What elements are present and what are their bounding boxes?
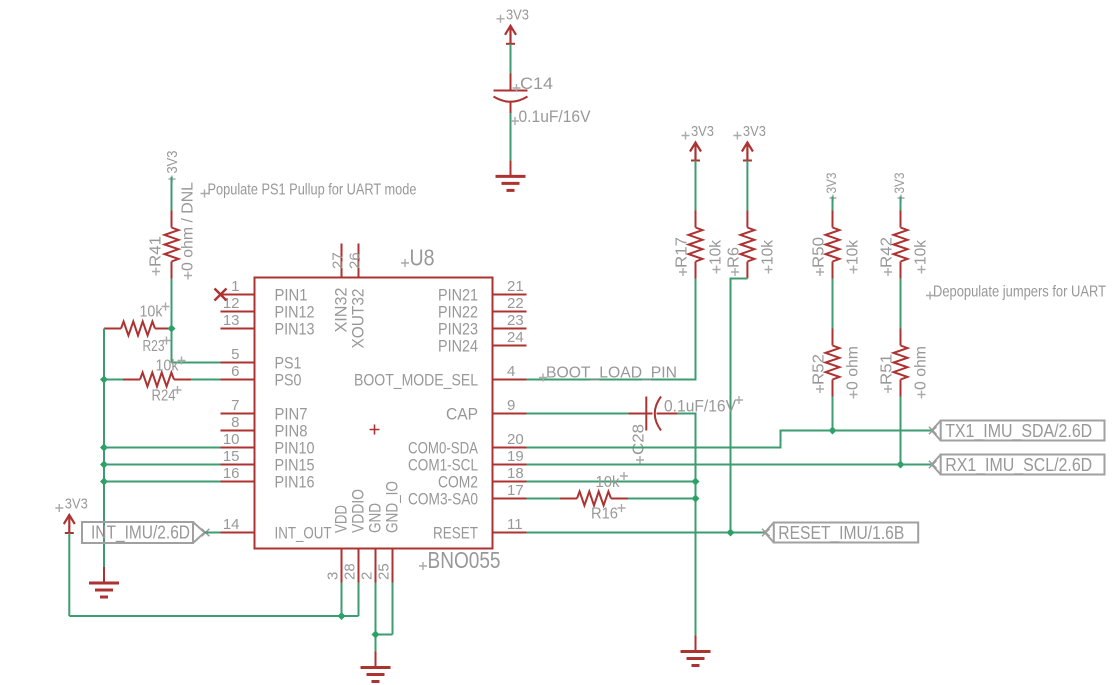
- svg-text:15: 15: [223, 448, 240, 465]
- svg-text:Populate PS1 Pullup for UART m: Populate PS1 Pullup for UART mode: [208, 182, 417, 199]
- svg-text:3V3: 3V3: [65, 496, 88, 513]
- svg-text:13: 13: [223, 312, 240, 329]
- svg-text:R52: R52: [811, 354, 828, 385]
- svg-text:11: 11: [507, 516, 523, 533]
- svg-text:PIN16: PIN16: [275, 473, 315, 492]
- svg-text:10k: 10k: [708, 239, 725, 265]
- svg-text:23: 23: [507, 312, 524, 329]
- svg-text:27: 27: [330, 252, 347, 269]
- svg-text:PS0: PS0: [275, 371, 302, 390]
- svg-text:10k: 10k: [140, 304, 164, 321]
- svg-text:12: 12: [223, 295, 240, 312]
- svg-text:7: 7: [231, 397, 239, 414]
- svg-text:R23: R23: [143, 338, 165, 355]
- svg-text:3V3: 3V3: [743, 123, 766, 140]
- svg-text:26: 26: [347, 252, 364, 269]
- svg-text:0 ohm: 0 ohm: [845, 346, 862, 390]
- svg-text:0 ohm: 0 ohm: [913, 346, 930, 390]
- svg-text:R42: R42: [879, 237, 896, 268]
- svg-text:BOOT_LOAD_PIN: BOOT_LOAD_PIN: [546, 365, 677, 382]
- svg-text:R41: R41: [148, 236, 165, 267]
- svg-text:10k: 10k: [845, 239, 862, 265]
- svg-text:INT_IMU/2.6D: INT_IMU/2.6D: [91, 523, 190, 544]
- svg-text:3V3: 3V3: [691, 123, 714, 140]
- svg-text:5: 5: [231, 346, 239, 363]
- svg-text:10k: 10k: [156, 358, 180, 375]
- svg-text:21: 21: [507, 278, 524, 295]
- svg-text:RESET_IMU/1.6B: RESET_IMU/1.6B: [778, 523, 904, 544]
- svg-text:0 ohm / DNL: 0 ohm / DNL: [180, 182, 197, 271]
- svg-text:COM3-SA0: COM3-SA0: [408, 490, 478, 509]
- svg-text:0.1uF/16V: 0.1uF/16V: [664, 397, 737, 416]
- svg-text:3V3: 3V3: [164, 151, 181, 174]
- svg-text:3V3: 3V3: [891, 172, 907, 193]
- svg-text:0.1uF/16V: 0.1uF/16V: [519, 107, 592, 126]
- svg-text:C14: C14: [520, 74, 553, 93]
- svg-text:3V3: 3V3: [506, 6, 529, 23]
- svg-text:BNO055: BNO055: [428, 547, 501, 573]
- svg-text:U8: U8: [410, 245, 435, 271]
- svg-text:R16: R16: [591, 506, 618, 523]
- svg-text:28: 28: [342, 563, 359, 580]
- svg-text:RX1_IMU_SCL/2.6D: RX1_IMU_SCL/2.6D: [945, 455, 1092, 476]
- svg-text:4: 4: [507, 363, 515, 380]
- svg-text:CAP: CAP: [446, 405, 478, 424]
- svg-text:1: 1: [231, 278, 239, 295]
- svg-text:PIN13: PIN13: [275, 320, 315, 339]
- svg-text:R6: R6: [726, 247, 743, 268]
- svg-text:Depopulate jumpers for UART: Depopulate jumpers for UART: [933, 284, 1106, 301]
- svg-text:20: 20: [507, 431, 524, 448]
- svg-text:TX1_IMU_SDA/2.6D: TX1_IMU_SDA/2.6D: [945, 421, 1092, 442]
- svg-text:INT_OUT: INT_OUT: [275, 524, 332, 543]
- svg-text:2: 2: [359, 572, 376, 580]
- svg-text:10k: 10k: [760, 239, 777, 265]
- svg-text:8: 8: [231, 414, 239, 431]
- svg-text:RESET: RESET: [433, 524, 478, 543]
- svg-text:19: 19: [507, 448, 524, 465]
- svg-text:16: 16: [223, 465, 240, 482]
- svg-text:R51: R51: [879, 354, 896, 385]
- svg-text:14: 14: [223, 516, 240, 533]
- svg-text:25: 25: [376, 563, 393, 580]
- svg-text:24: 24: [507, 329, 524, 346]
- svg-text:C28: C28: [631, 424, 648, 455]
- svg-text:GND_IO: GND_IO: [383, 481, 402, 533]
- svg-text:10: 10: [223, 431, 240, 448]
- svg-text:3V3: 3V3: [823, 172, 839, 193]
- svg-text:18: 18: [507, 465, 524, 482]
- svg-text:17: 17: [507, 482, 524, 499]
- svg-text:10k: 10k: [596, 474, 621, 491]
- svg-text:PIN24: PIN24: [438, 337, 478, 356]
- svg-text:R24: R24: [152, 388, 176, 405]
- svg-text:9: 9: [507, 397, 515, 414]
- svg-text:22: 22: [507, 295, 524, 312]
- svg-text:10k: 10k: [913, 239, 930, 265]
- svg-text:6: 6: [231, 363, 239, 380]
- svg-text:BOOT_MODE_SEL: BOOT_MODE_SEL: [354, 371, 478, 390]
- svg-text:XOUT32: XOUT32: [349, 289, 368, 349]
- svg-text:R50: R50: [811, 237, 828, 268]
- svg-text:R17: R17: [674, 237, 691, 268]
- svg-text:3: 3: [325, 572, 342, 580]
